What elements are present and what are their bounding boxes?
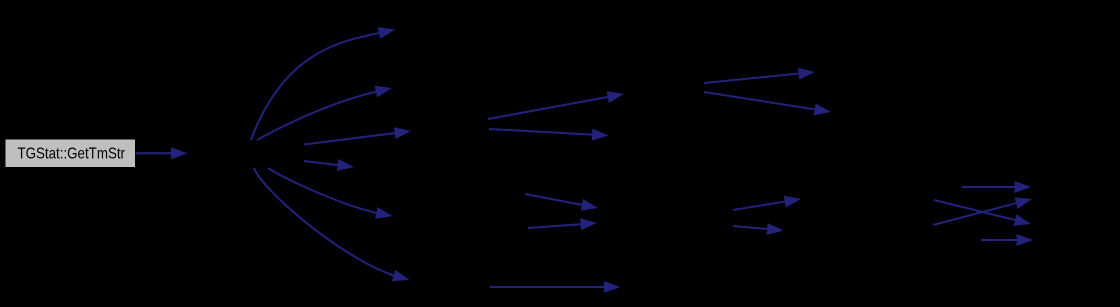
svg-text:TGStat::GetTmStr: TGStat::GetTmStr — [18, 145, 126, 162]
